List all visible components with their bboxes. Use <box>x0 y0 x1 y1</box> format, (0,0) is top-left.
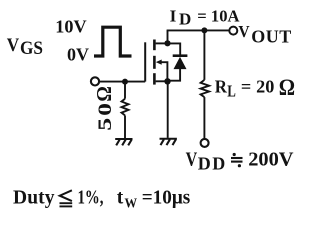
svg-text:OUT: OUT <box>251 26 291 46</box>
label ID=10A <box>170 6 240 28</box>
svg-text:Ω: Ω <box>279 75 295 100</box>
svg-text:= 10A: = 10A <box>197 6 240 25</box>
svg-text:t: t <box>117 187 124 208</box>
svg-text:V: V <box>238 22 250 41</box>
transistor Q1 channel segments <box>153 40 156 51</box>
svg-text:0: 0 <box>96 103 116 116</box>
svg-text:5: 5 <box>96 118 116 131</box>
svg-text:=10μs: =10μs <box>142 187 191 208</box>
node gate junction dot <box>122 79 128 85</box>
svg-text:W: W <box>125 197 138 212</box>
label VGS <box>7 35 43 59</box>
label Duty condition <box>13 187 191 211</box>
symbol approx-equal (dots above and below) <box>231 153 243 167</box>
diode D1 triangle <box>174 57 187 69</box>
wire RL branch upper <box>203 30 205 80</box>
svg-text:1%,: 1%, <box>78 187 104 208</box>
svg-text:V: V <box>7 35 20 56</box>
resistor 50ohm zigzag <box>122 99 129 116</box>
transistor Q1 gate bar <box>144 42 146 81</box>
svg-text:D: D <box>179 10 191 29</box>
input terminal circle <box>91 77 99 85</box>
label RL=20ohm <box>215 75 295 100</box>
svg-text:V: V <box>186 149 198 171</box>
svg-text:10V: 10V <box>55 17 86 37</box>
svg-text:= 20: = 20 <box>241 77 275 97</box>
label VOUT <box>238 22 291 46</box>
label VDD=200V <box>186 149 294 174</box>
wire RL to VDD terminal <box>203 97 205 139</box>
symbol less-equal with double bar <box>60 190 73 206</box>
transistor Q1 source stub <box>156 80 168 82</box>
svg-text:L: L <box>227 82 236 101</box>
node source dot <box>164 78 170 84</box>
svg-text:GS: GS <box>20 38 43 59</box>
wire 50ohm to ground <box>124 115 126 138</box>
terminal VOUT circle <box>229 27 237 35</box>
svg-text:R: R <box>215 77 228 97</box>
transistor Q1 body stub with arrow <box>162 62 168 81</box>
node RL junction dot <box>201 27 207 33</box>
transistor Q1 drain stub <box>156 42 168 44</box>
diode D1 cathode bar <box>173 54 188 57</box>
wire input to gate <box>99 81 145 83</box>
svg-text:Duty: Duty <box>13 187 55 208</box>
diode D1 anode link <box>168 68 181 81</box>
wire source down <box>167 81 169 138</box>
svg-text:200V: 200V <box>248 149 294 171</box>
node drain dot <box>164 40 170 46</box>
svg-text:Ω: Ω <box>92 86 116 102</box>
resistor RL zigzag <box>201 80 210 97</box>
label 50ohm (rotated) <box>92 86 116 131</box>
svg-text:DD: DD <box>198 154 226 174</box>
svg-text:I: I <box>170 6 177 25</box>
diode D1 cathode link <box>168 43 181 56</box>
terminal VDD circle <box>201 139 209 147</box>
wire drain up <box>167 30 169 43</box>
gate pulse waveform <box>94 27 132 56</box>
wire 50ohm branch upper <box>124 82 126 99</box>
ground G1 under 50ohm <box>115 139 132 145</box>
wire top rail <box>167 29 230 31</box>
ground G2 under source <box>160 139 177 145</box>
svg-text:0V: 0V <box>67 44 89 64</box>
